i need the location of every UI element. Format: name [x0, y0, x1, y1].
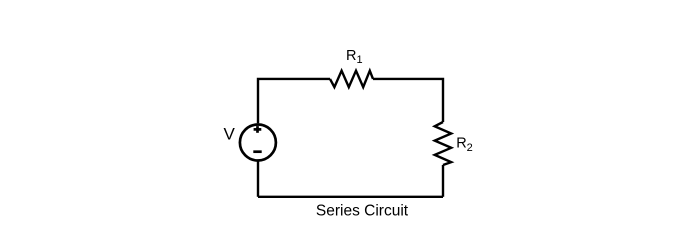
svg-text:R1: R1 — [346, 48, 363, 66]
resistor R2 — [435, 122, 452, 165]
wire top-right: R1 right lead to top-right corner down to R2 top lead — [373, 79, 443, 122]
wire left-bottom: bottom-left corner up to voltage source bottom — [257, 162, 259, 197]
resistor R1 — [330, 71, 373, 87]
wire bottom — [258, 196, 443, 198]
svg-text:R2: R2 — [456, 136, 473, 154]
svg-text:V: V — [224, 124, 236, 143]
svg-text:Series Circuit: Series Circuit — [316, 203, 409, 220]
wire top-left: voltage source top to top-left corner to R1 left lead — [258, 79, 330, 123]
wire right-bottom: R2 bottom lead to bottom-right corner — [442, 165, 444, 197]
voltage source V — [240, 125, 276, 161]
